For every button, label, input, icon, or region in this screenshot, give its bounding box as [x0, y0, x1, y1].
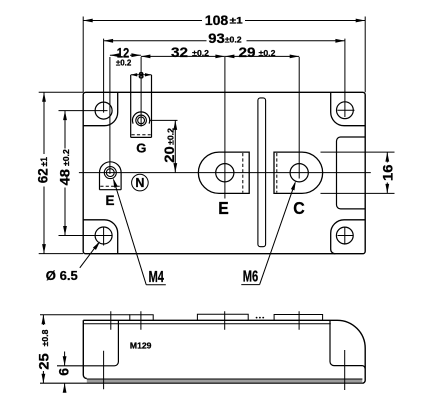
dimension 6 line — [64, 352, 66, 392]
dimension 48 line — [64, 111, 66, 236]
side view outline — [83, 320, 365, 383]
centerline cross hole top-right — [337, 39, 354, 117]
emitter aux centerline — [109, 57, 111, 174]
svg-text:±1: ±1 — [230, 15, 243, 25]
circled N symbol — [132, 174, 149, 191]
side view right pocket wall — [330, 320, 365, 368]
dimension 108 line — [83, 20, 365, 22]
emitter aux terminal recess — [100, 173, 122, 190]
main collector terminal C outline — [274, 152, 323, 193]
extension lines 62 — [39, 92, 83, 253]
side view lid rim line — [83, 323, 330, 325]
side view hole centerlines — [104, 350, 345, 390]
gate centerline — [140, 57, 142, 127]
svg-text:62: 62 — [34, 168, 50, 183]
leader M6 — [241, 183, 295, 285]
centerline cross hole bottom-right — [338, 227, 354, 244]
svg-text:C: C — [293, 198, 305, 218]
centerline cross hole top-left — [59, 39, 108, 113]
svg-text:25: 25 — [36, 353, 52, 370]
svg-text:Ø 6.5: Ø 6.5 — [46, 269, 78, 283]
extension lines 108 — [83, 17, 365, 93]
svg-text:16: 16 — [379, 164, 395, 181]
leader M4 — [114, 180, 166, 285]
svg-text:20: 20 — [161, 146, 177, 163]
emitter aux tab semicircle — [100, 162, 122, 173]
svg-text:±0.2: ±0.2 — [192, 49, 209, 58]
emitter hole — [216, 164, 234, 182]
centerline cross hole bottom-left — [59, 227, 113, 246]
svg-text:32: 32 — [171, 44, 188, 60]
extension line 20 top — [150, 119, 178, 121]
svg-text:±0.2: ±0.2 — [259, 49, 276, 58]
svg-text:±0.2: ±0.2 — [62, 149, 71, 166]
collector centerline — [298, 57, 300, 179]
svg-text:M6: M6 — [243, 268, 259, 285]
baseplate — [87, 379, 363, 383]
mounting hole top-right — [337, 102, 354, 119]
side view left pocket wall — [57, 320, 118, 366]
emitter aux hole rings — [104, 167, 116, 179]
svg-text:48: 48 — [56, 169, 72, 186]
pocket top-left — [83, 92, 118, 125]
svg-text:±0.8: ±0.8 — [41, 329, 50, 346]
collector hole — [290, 164, 308, 182]
dimension 93 line — [104, 40, 345, 42]
side view terminal bumps — [130, 314, 323, 320]
leader diameter 6.5 — [80, 243, 98, 267]
collector hidden edge dashed — [276, 153, 278, 193]
dimension 29 line — [225, 55, 299, 57]
extension line 25 top — [40, 314, 130, 316]
mounting hole top-left — [95, 102, 112, 119]
svg-text:M4: M4 — [148, 269, 164, 286]
svg-text:6: 6 — [56, 368, 72, 376]
gate terminal hole rings — [136, 115, 147, 126]
svg-text:±1: ±1 — [39, 157, 49, 167]
pocket bottom-left — [83, 220, 118, 254]
emitter hidden edge dashed — [242, 153, 244, 193]
body outline top view — [83, 92, 365, 253]
svg-text:108: 108 — [205, 12, 229, 28]
dimension 12 line — [110, 54, 141, 56]
svg-text:±0.2: ±0.2 — [116, 58, 132, 67]
dimension 8 line — [131, 74, 152, 76]
dimension 62 line — [43, 92, 45, 253]
main emitter terminal E outline — [198, 152, 249, 193]
gate terminal tab arc — [133, 112, 150, 124]
dimension 16 line — [386, 152, 388, 193]
svg-text:E: E — [218, 198, 229, 218]
side view slot dots — [256, 317, 264, 319]
svg-text:E: E — [105, 193, 114, 208]
pocket bottom-right — [331, 220, 366, 254]
svg-text:±0.2: ±0.2 — [167, 128, 176, 145]
gate terminal G recess — [131, 75, 152, 137]
side view terminal centerline ticks — [111, 311, 299, 329]
gate terminal hidden edge dashed — [132, 134, 151, 136]
mounting hole bottom-left — [95, 227, 112, 244]
mounting hole bottom-right — [336, 227, 353, 244]
emitter centerline — [224, 57, 226, 199]
right edge channel — [337, 137, 366, 209]
svg-text:G: G — [136, 140, 146, 155]
svg-text:29: 29 — [239, 44, 256, 60]
isolation slot — [258, 98, 266, 247]
svg-text:M129: M129 — [130, 342, 152, 351]
dimension 20 line — [174, 120, 176, 172]
svg-text:8: 8 — [138, 71, 143, 82]
svg-text:N: N — [135, 176, 144, 190]
horizontal centerline row — [79, 172, 371, 174]
emitter aux hidden edge dashed — [100, 185, 120, 187]
dimension 32 line — [141, 55, 225, 57]
dimension 25 line — [42, 315, 44, 384]
extension lines 16 — [321, 152, 395, 193]
pocket top-right — [331, 92, 366, 125]
svg-text:93: 93 — [208, 30, 225, 46]
